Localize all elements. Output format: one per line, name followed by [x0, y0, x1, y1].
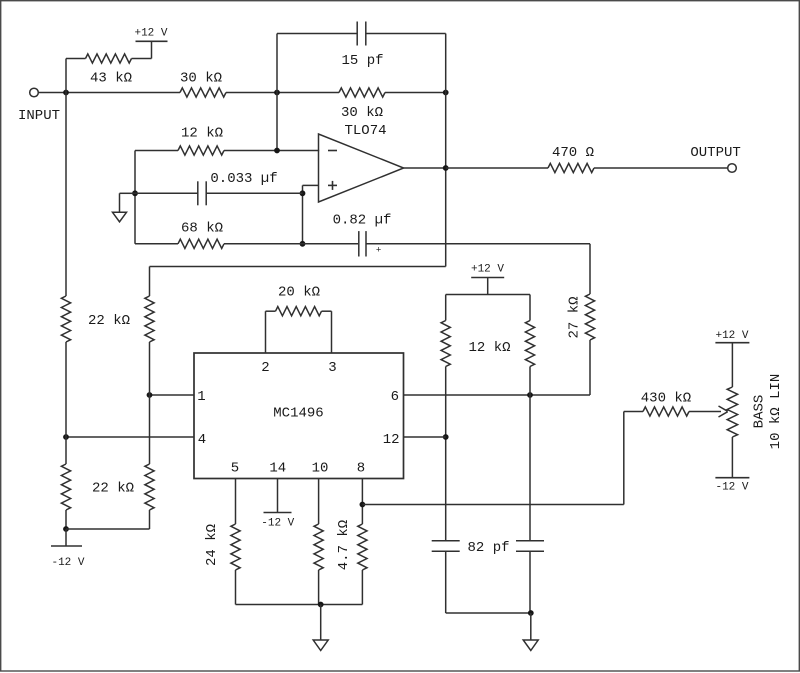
wire pin2 stub — [265, 311, 267, 353]
wire pin5 lower — [235, 570, 237, 605]
svg-text:22 kΩ: 22 kΩ — [92, 480, 134, 496]
node output junction — [443, 165, 449, 171]
pin label 3 — [328, 360, 336, 376]
resistor 430k — [641, 390, 691, 416]
wire between 30k — [226, 92, 339, 94]
resistor 30k input — [180, 70, 226, 97]
wire 0.82 right — [366, 243, 590, 245]
svg-text:12 kΩ: 12 kΩ — [468, 340, 510, 356]
svg-text:INPUT: INPUT — [18, 108, 60, 124]
wire 430k left — [624, 411, 643, 413]
wire below 82pf left — [446, 551, 531, 613]
wire pin10 stub — [318, 479, 320, 525]
resistor 12k left — [441, 295, 510, 367]
svg-text:+12 V: +12 V — [134, 27, 167, 39]
svg-text:0.033 µf: 0.033 µf — [210, 171, 277, 187]
svg-text:8: 8 — [357, 461, 365, 477]
wire pin1 line — [150, 394, 195, 396]
wire 12k-right lower — [529, 367, 531, 541]
svg-text:+12 V: +12 V — [471, 263, 504, 275]
pin label 1 — [197, 389, 205, 405]
wire plus input — [303, 185, 319, 243]
wire pot bottom — [731, 437, 733, 478]
node pin12 junction — [443, 434, 449, 440]
resistor 27k — [566, 294, 594, 340]
resistor 24k — [204, 524, 240, 570]
svg-text:12: 12 — [383, 432, 400, 448]
svg-text:+: + — [376, 246, 381, 256]
resistor 4.7k pin8 — [358, 524, 367, 570]
supply -12V pot — [715, 478, 749, 494]
resistor 12k right — [525, 295, 534, 367]
node pin8 junction — [360, 502, 366, 508]
svg-text:-12 V: -12 V — [715, 481, 748, 493]
wire below 82pf right — [529, 551, 531, 613]
svg-text:10 kΩ LIN: 10 kΩ LIN — [768, 374, 784, 450]
pin label 2 — [261, 360, 269, 376]
svg-text:30 kΩ: 30 kΩ — [180, 70, 222, 86]
wire pin3 stub — [331, 311, 333, 353]
pin label 10 — [312, 461, 329, 477]
wire 12k to op-amp — [224, 150, 319, 152]
node plus-68k junction — [300, 241, 306, 247]
svg-text:2: 2 — [261, 360, 269, 376]
wire 43k left — [66, 58, 86, 60]
svg-text:15 pf: 15 pf — [341, 53, 383, 69]
wire input line — [38, 92, 180, 94]
svg-text:22 kΩ: 22 kΩ — [88, 313, 130, 329]
svg-text:6: 6 — [391, 389, 399, 405]
terminal INPUT — [18, 88, 60, 124]
wire up to 43k — [65, 59, 67, 93]
svg-text:43 kΩ: 43 kΩ — [90, 70, 132, 86]
wire pin12 line — [404, 436, 446, 438]
wire pin6 line — [404, 394, 591, 396]
wire pin10 lower — [318, 570, 320, 605]
resistor pin10 — [314, 520, 352, 570]
supply +12V rail — [471, 263, 504, 294]
node -12V junction — [63, 526, 69, 532]
wire 68k right — [224, 243, 358, 245]
svg-text:430 kΩ: 430 kΩ — [641, 390, 691, 406]
resistor 22k right-bottom — [145, 464, 154, 510]
wire x149 lower — [149, 510, 151, 529]
svg-text:4: 4 — [198, 432, 206, 448]
resistor 470 — [548, 145, 594, 173]
wire pin4 line — [66, 436, 194, 438]
pin label 4 — [198, 432, 206, 448]
wire pin5 stub — [235, 479, 237, 525]
wire x149 upper — [149, 267, 151, 297]
wire 12k left stub — [135, 150, 178, 152]
wire 43k right — [132, 58, 152, 60]
IC U2 MC1496 — [194, 353, 404, 479]
wire left vertical 12k-68k — [134, 151, 136, 244]
capacitor 0.82uf — [333, 212, 392, 256]
wire 30k-2 right — [385, 92, 446, 94]
wire 12k rail — [446, 294, 530, 296]
capacitor 82pf right — [516, 541, 544, 551]
wire x66 lower — [65, 510, 67, 529]
svg-text:-12 V: -12 V — [261, 517, 294, 529]
op-amp U1 TLO74 — [319, 123, 404, 202]
node output-column junction — [443, 90, 449, 96]
svg-text:5: 5 — [231, 461, 239, 477]
svg-text:20 kΩ: 20 kΩ — [278, 284, 320, 300]
wire 20k left — [266, 310, 276, 312]
wire output column upper — [445, 34, 447, 267]
svg-text:14: 14 — [269, 461, 286, 477]
wire pin8 stub — [361, 479, 363, 525]
wire 0.033 right — [206, 192, 302, 194]
node pin1 junction — [147, 392, 153, 398]
wire 0.033 left — [135, 192, 198, 194]
svg-text:24 kΩ: 24 kΩ — [204, 524, 220, 566]
svg-text:1: 1 — [197, 389, 205, 405]
svg-text:-12 V: -12 V — [51, 557, 84, 569]
svg-text:TLO74: TLO74 — [344, 123, 386, 139]
wire 15pf right — [366, 33, 446, 35]
node plus-0.033 junction — [300, 190, 306, 196]
node pin4 junction — [63, 434, 69, 440]
supply -12V pin14 — [261, 479, 294, 530]
node ground junction — [132, 190, 138, 196]
wire 430k riser — [623, 412, 625, 505]
wire 27k top — [589, 244, 591, 294]
wire x66 upper — [65, 93, 67, 297]
svg-text:3: 3 — [328, 360, 336, 376]
node inverting junction — [274, 148, 280, 154]
node ground-right junction — [528, 610, 534, 616]
svg-text:OUTPUT: OUTPUT — [690, 145, 740, 161]
supply -12V left — [51, 529, 85, 569]
svg-text:82 pf: 82 pf — [467, 540, 509, 556]
ground bottom-mid — [313, 605, 328, 651]
wire 470 to output — [594, 167, 728, 169]
ground at 0.033 — [113, 193, 136, 222]
wire 27k bottom — [589, 340, 591, 395]
svg-text:470 Ω: 470 Ω — [552, 145, 594, 161]
capacitor 82pf left — [432, 540, 510, 556]
wire bottom bus — [236, 604, 363, 606]
svg-text:BASS: BASS — [751, 395, 767, 429]
wire x149 middle — [149, 342, 151, 464]
supply +12V pot — [715, 330, 749, 343]
wire 430k to wiper — [689, 411, 721, 413]
wire 20k right — [322, 310, 332, 312]
wire to 470 — [446, 167, 548, 169]
svg-text:10: 10 — [312, 461, 329, 477]
svg-text:27 kΩ: 27 kΩ — [566, 296, 582, 338]
wire 12k-left lower — [445, 367, 447, 541]
label BASS — [751, 395, 767, 429]
capacitor 15pf — [341, 22, 383, 69]
svg-text:4.7 kΩ: 4.7 kΩ — [336, 520, 352, 570]
resistor 22k left-top — [61, 296, 130, 342]
svg-text:68 kΩ: 68 kΩ — [181, 220, 223, 236]
wire output column to 267 — [150, 266, 446, 268]
terminal OUTPUT — [690, 145, 740, 172]
wiper arrow — [719, 406, 728, 417]
wire 15pf left — [277, 33, 357, 35]
resistor 12k input — [178, 125, 224, 155]
wire pot top — [731, 343, 733, 387]
resistor 43k — [86, 54, 133, 86]
resistor 30k feedback — [339, 88, 385, 121]
label 10k LIN — [768, 374, 784, 450]
node input junction — [63, 90, 69, 96]
resistor 22k left-bottom — [61, 464, 134, 510]
resistor 22k right-top — [145, 296, 154, 342]
capacitor 0.033uf — [198, 171, 278, 206]
svg-text:12 kΩ: 12 kΩ — [181, 125, 223, 141]
svg-text:+12 V: +12 V — [715, 330, 748, 342]
pin label 12 — [383, 432, 400, 448]
wire x66 middle — [65, 342, 67, 464]
resistor 20k — [276, 284, 322, 315]
svg-text:MC1496: MC1496 — [273, 405, 323, 421]
node ground-mid junction — [318, 602, 324, 608]
svg-text:0.82 µf: 0.82 µf — [333, 212, 392, 228]
resistor 68k — [178, 220, 224, 248]
wire pin8 horizontal — [362, 504, 623, 506]
potentiometer BASS 10k — [727, 387, 737, 437]
wire pin8 lower — [361, 570, 363, 605]
svg-text:30 kΩ: 30 kΩ — [341, 105, 383, 121]
supply +12V top-left — [134, 27, 167, 58]
node pin6-12k junction — [527, 392, 533, 398]
wire 68k left — [135, 243, 178, 245]
ground bottom-right — [523, 613, 538, 651]
node feedback junction — [274, 90, 280, 96]
pin label 14 — [269, 461, 286, 477]
wire feedback riser — [276, 34, 278, 151]
pin label 8 — [357, 461, 365, 477]
wire op-amp output — [404, 167, 446, 169]
pin label 5 — [231, 461, 239, 477]
pin label 6 — [391, 389, 399, 405]
wire bottom join — [66, 528, 150, 530]
